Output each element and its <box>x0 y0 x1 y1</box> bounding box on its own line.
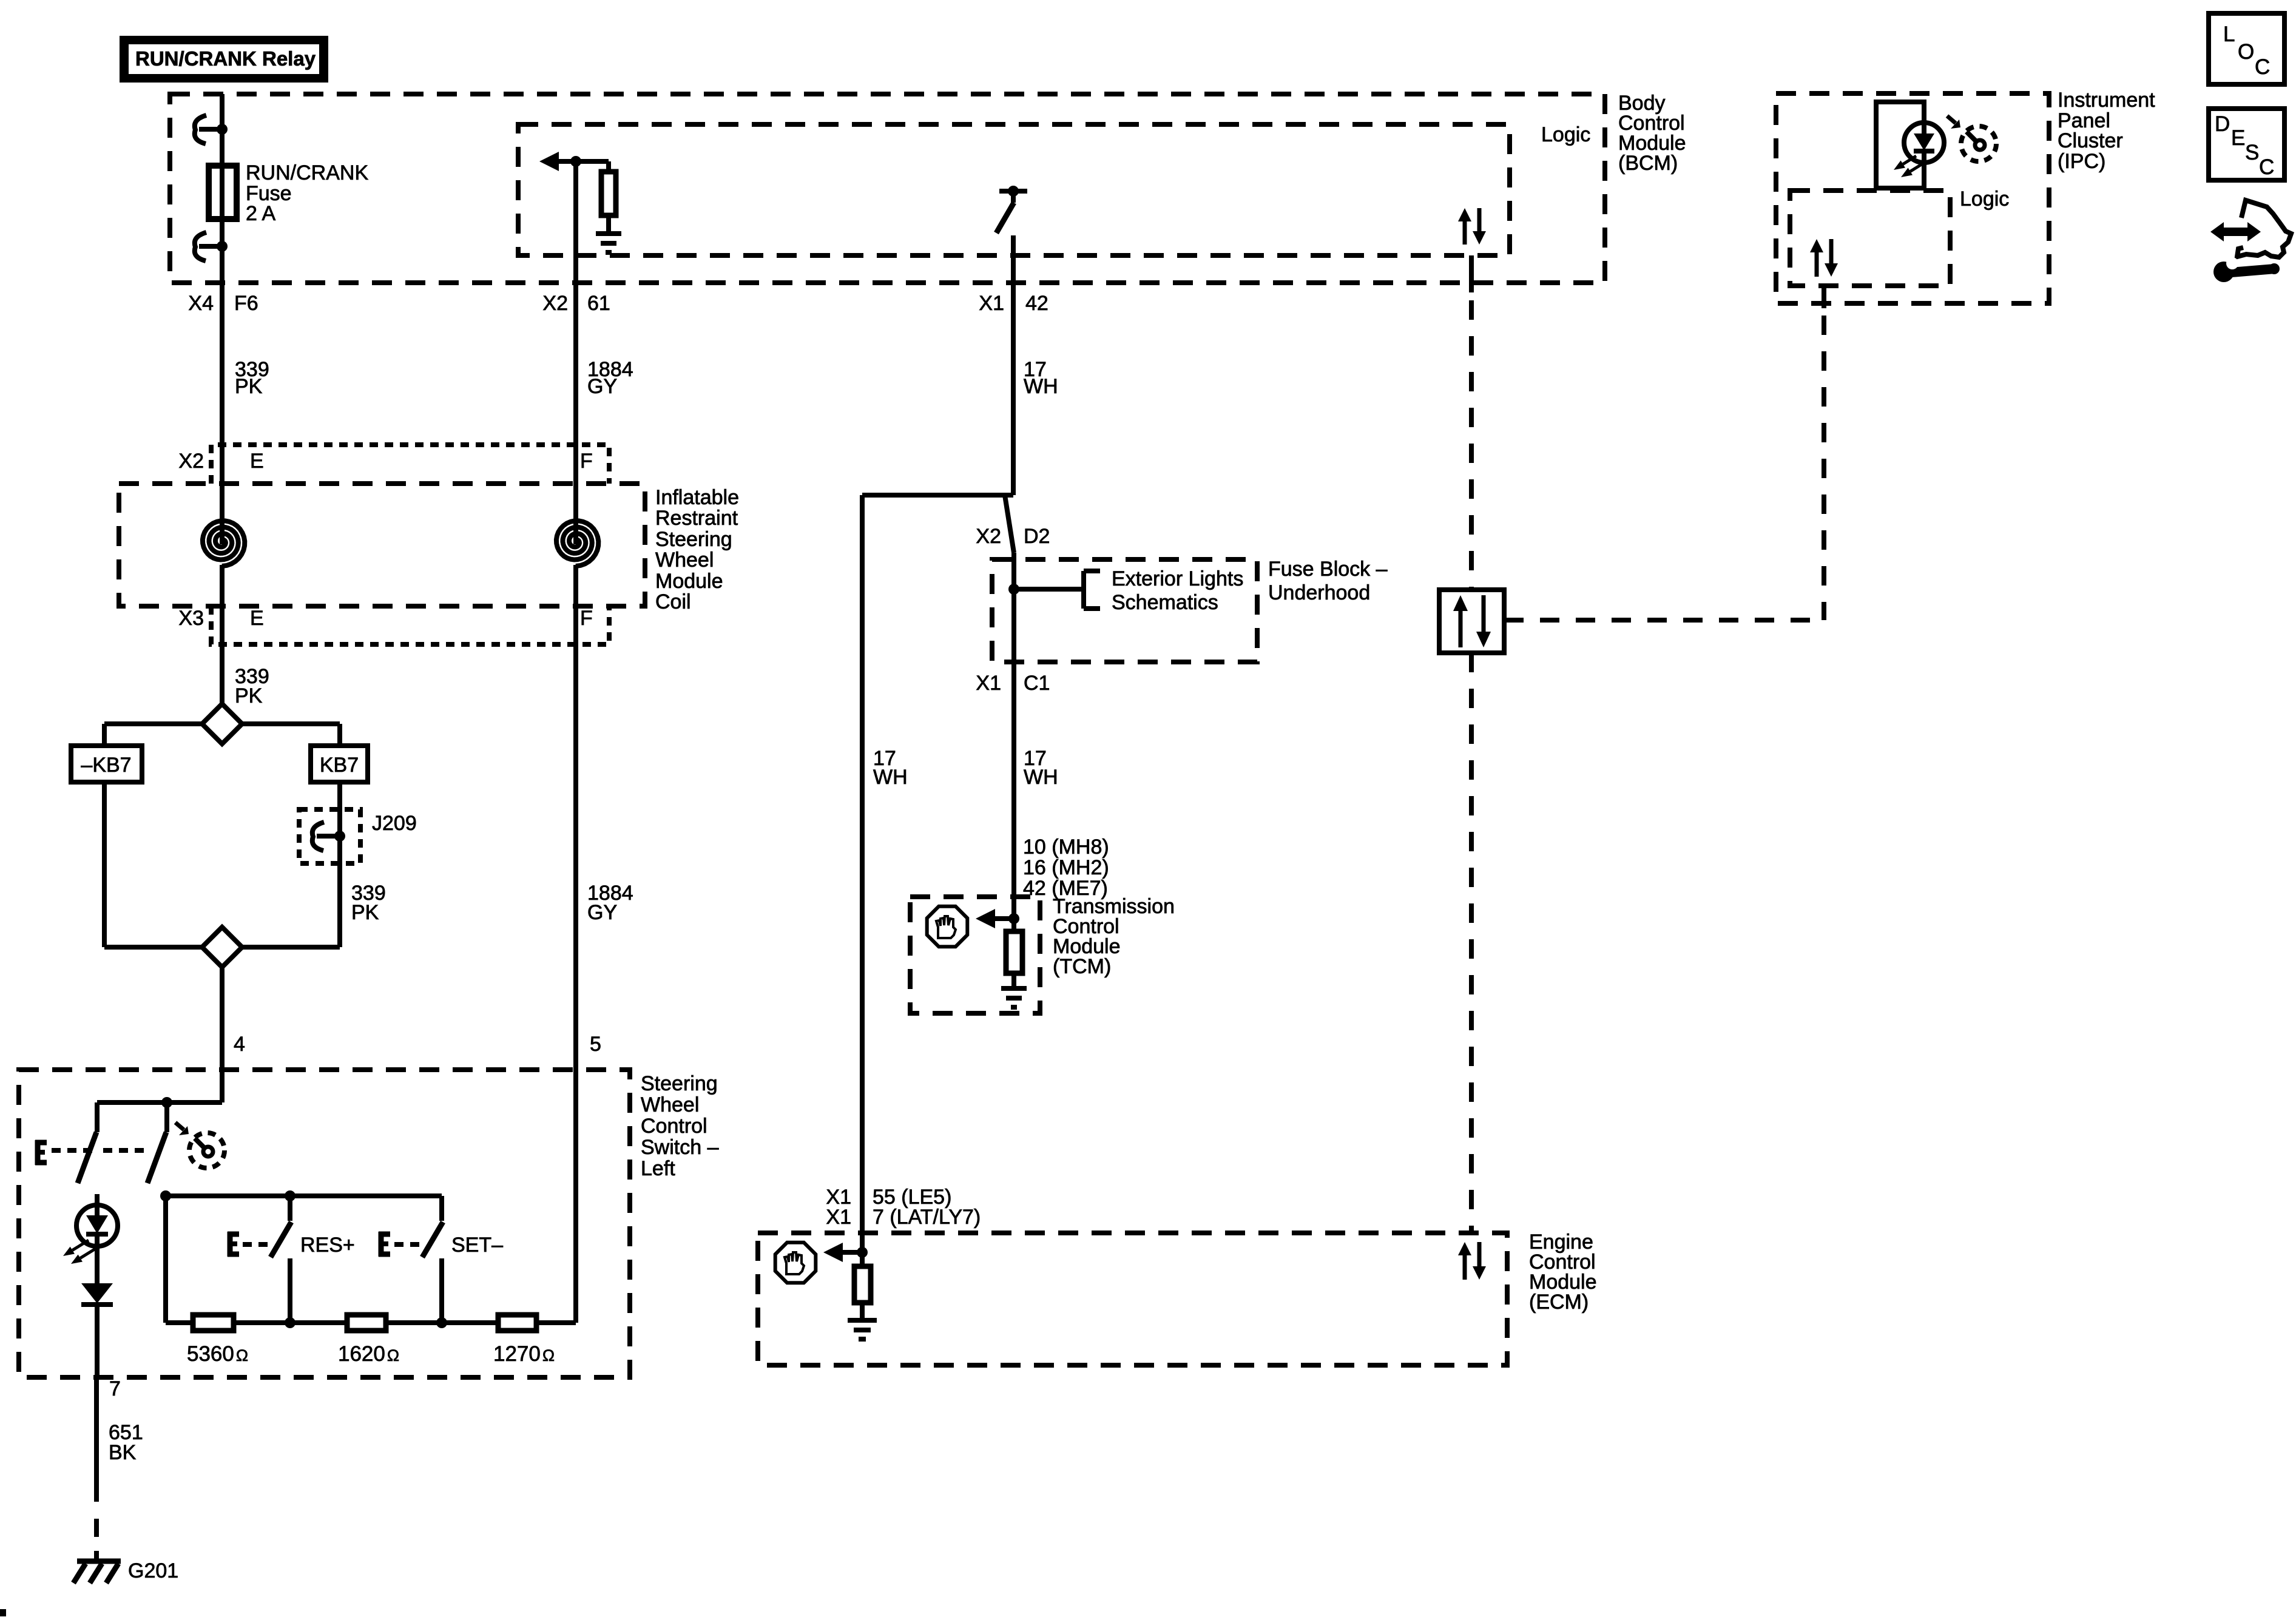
svg-text:Wheel: Wheel <box>641 1093 699 1116</box>
svg-text:X1: X1 <box>979 292 1004 315</box>
svg-text:F: F <box>580 607 593 630</box>
svg-text:Exterior Lights: Exterior Lights <box>1112 567 1243 590</box>
svg-text:X1: X1 <box>826 1206 851 1229</box>
svg-text:10 (MH8): 10 (MH8) <box>1023 836 1109 859</box>
svg-text:WH: WH <box>1024 766 1058 789</box>
svg-text:Coil: Coil <box>655 590 691 613</box>
svg-text:PK: PK <box>235 684 263 707</box>
svg-text:Left: Left <box>641 1157 675 1180</box>
svg-text:G201: G201 <box>128 1559 178 1582</box>
svg-text:E: E <box>2231 126 2245 150</box>
svg-text:RES+: RES+ <box>300 1234 355 1257</box>
svg-text:(BCM): (BCM) <box>1618 152 1678 175</box>
svg-text:O: O <box>2238 40 2254 64</box>
svg-text:WH: WH <box>873 766 908 789</box>
svg-text:X2: X2 <box>976 525 1001 548</box>
svg-text:X1: X1 <box>976 672 1001 695</box>
svg-text:F6: F6 <box>234 292 258 315</box>
svg-text:S: S <box>2245 141 2259 164</box>
svg-text:7 (LAT/LY7): 7 (LAT/LY7) <box>873 1206 981 1229</box>
svg-text:RUN/CRANK Relay: RUN/CRANK Relay <box>135 47 316 70</box>
svg-text:RUN/CRANK: RUN/CRANK <box>246 161 368 184</box>
svg-text:F: F <box>580 450 593 473</box>
svg-text:5: 5 <box>590 1033 601 1056</box>
svg-text:J209: J209 <box>372 812 417 835</box>
svg-text:42: 42 <box>1025 292 1048 315</box>
svg-text:Fuse Block –: Fuse Block – <box>1268 558 1388 581</box>
svg-text:E: E <box>250 607 264 630</box>
svg-text:BK: BK <box>109 1441 137 1464</box>
svg-text:4: 4 <box>234 1033 245 1056</box>
svg-text:X4: X4 <box>188 292 214 315</box>
svg-text:Schematics: Schematics <box>1112 591 1218 614</box>
svg-text:2 A: 2 A <box>246 202 275 225</box>
svg-text:Logic: Logic <box>1960 187 2009 211</box>
svg-text:X2: X2 <box>178 450 204 473</box>
svg-text:C: C <box>2255 55 2270 79</box>
svg-text:PK: PK <box>351 901 379 924</box>
svg-text:PK: PK <box>235 375 263 398</box>
svg-text:C: C <box>2259 155 2274 179</box>
svg-text:Inflatable: Inflatable <box>655 486 739 509</box>
svg-text:SET–: SET– <box>451 1234 503 1257</box>
svg-text:WH: WH <box>1024 375 1058 398</box>
svg-text:L: L <box>2223 22 2235 46</box>
svg-text:Wheel: Wheel <box>655 549 714 572</box>
svg-text:E: E <box>250 450 264 473</box>
svg-text:GY: GY <box>587 375 617 398</box>
svg-text:GY: GY <box>587 901 617 924</box>
svg-text:Steering: Steering <box>655 528 732 551</box>
svg-text:–KB7: –KB7 <box>81 754 131 777</box>
svg-text:7: 7 <box>109 1377 121 1400</box>
svg-text:X3: X3 <box>178 607 204 630</box>
svg-text:Underhood: Underhood <box>1268 581 1370 604</box>
svg-text:16 (MH2): 16 (MH2) <box>1023 856 1109 879</box>
svg-text:Cluster: Cluster <box>2058 129 2123 152</box>
svg-text:(IPC): (IPC) <box>2058 150 2105 173</box>
svg-text:Instrument: Instrument <box>2058 89 2155 112</box>
svg-text:D: D <box>2215 112 2230 136</box>
svg-text:(ECM): (ECM) <box>1529 1291 1589 1314</box>
svg-text:KB7: KB7 <box>320 754 359 777</box>
svg-text:Switch –: Switch – <box>641 1136 719 1159</box>
svg-text:X2: X2 <box>542 292 568 315</box>
svg-text:Steering: Steering <box>641 1072 718 1095</box>
svg-text:D2: D2 <box>1024 525 1050 548</box>
svg-text:Logic: Logic <box>1541 123 1590 146</box>
svg-text:Module: Module <box>655 570 723 593</box>
svg-text:Restraint: Restraint <box>655 507 738 530</box>
svg-text:Control: Control <box>641 1115 707 1138</box>
svg-text:61: 61 <box>587 292 610 315</box>
svg-text:C1: C1 <box>1024 672 1050 695</box>
svg-text:(TCM): (TCM) <box>1053 955 1111 978</box>
